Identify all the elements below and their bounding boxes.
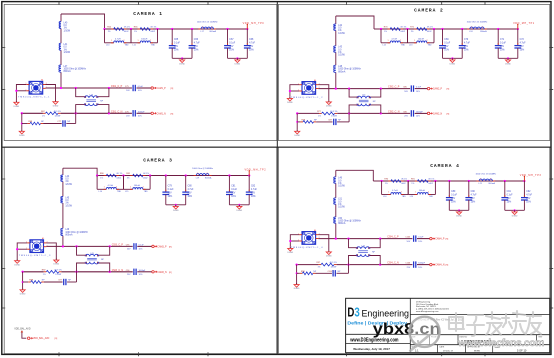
wire: CSI P line <box>318 88 410 90</box>
capacitor C85 series (P line) <box>410 85 412 91</box>
svg-text:C68: C68 <box>249 39 254 41</box>
svg-text:1%: 1% <box>134 31 137 33</box>
svg-text:1%: 1% <box>384 31 387 33</box>
svg-text:1/10W: 1/10W <box>338 33 345 35</box>
wire: cap group bottom rail <box>443 57 463 59</box>
svg-text:2: 2 <box>97 263 98 265</box>
node junction on rail <box>149 174 151 176</box>
svg-text:DGND: DGND <box>235 64 241 66</box>
svg-text:TBD: TBD <box>428 44 433 46</box>
svg-text:1: 1 <box>414 40 415 42</box>
svg-text:800mA: 800mA <box>64 70 72 73</box>
node junction on rail <box>407 180 409 182</box>
svg-text:50V: 50V <box>231 193 236 195</box>
svg-text:4.7uF: 4.7uF <box>464 43 470 45</box>
svg-text:1/10W: 1/10W <box>65 205 72 207</box>
wire: CSI N line <box>297 112 319 114</box>
svg-text:10%: 10% <box>251 196 256 198</box>
resistor R64 0K jumper (parallel pair 1) <box>111 28 114 30</box>
capacitor C107 NP <box>332 270 334 276</box>
ground (connector right) <box>55 259 57 261</box>
svg-text:1000pF: 1000pF <box>139 270 147 272</box>
svg-text:CSI2_C_N: CSI2_C_N <box>388 110 400 113</box>
svg-text:10%: 10% <box>520 49 525 51</box>
svg-text:10%: 10% <box>416 91 420 93</box>
svg-text:25V: 25V <box>188 193 193 195</box>
off-page connector CAM4_P <box>430 237 432 239</box>
svg-text:TMS04Q-KM75-C_1: TMS04Q-KM75-C_1 <box>18 97 50 99</box>
off-page connector CAM3_P <box>152 245 154 247</box>
center divider vertical <box>276 2 278 355</box>
wire: connector shield to ground (left) <box>290 85 299 97</box>
svg-text:0.1uF: 0.1uF <box>231 189 237 191</box>
svg-text:1%: 1% <box>64 49 67 51</box>
svg-text:1000 Ohm @ 100MHz: 1000 Ohm @ 100MHz <box>467 22 488 24</box>
svg-text:1%: 1% <box>338 30 341 32</box>
svg-text:A1: A1 <box>41 79 43 82</box>
wire: vertical supply chain <box>335 16 337 24</box>
svg-text:TBD: TBD <box>401 44 406 46</box>
svg-text:4.7uF: 4.7uF <box>520 43 526 45</box>
svg-text:0K 1%: 0K 1% <box>143 173 149 175</box>
svg-text:50V: 50V <box>229 46 234 48</box>
off-page connector CAM1_N <box>151 112 153 114</box>
inductor L12 4.7uH (parallel pair 1) <box>380 29 382 43</box>
resistor R98 NP <box>300 272 303 274</box>
svg-text:1000 Ohm @ 100MHz: 1000 Ohm @ 100MHz <box>64 69 87 71</box>
svg-text:C89: C89 <box>451 191 456 193</box>
svg-text:2: 2 <box>490 179 491 181</box>
node junction on rail <box>130 28 132 30</box>
ground (cap group) <box>236 57 238 59</box>
svg-text:1%: 1% <box>411 183 414 185</box>
svg-text:CSI4_C_N: CSI4_C_N <box>387 262 399 265</box>
resistor R65 0K jumper (parallel pair 2) <box>138 28 141 30</box>
svg-text:CAM4_N: CAM4_N <box>435 264 445 267</box>
wire: NP damping row <box>296 265 298 283</box>
svg-text:1: 1 <box>480 179 481 181</box>
ferrite bead L49 1000 Ohm @ 100MHz <box>61 228 63 235</box>
svg-text:25V: 25V <box>471 198 476 200</box>
svg-text:C71: C71 <box>500 39 505 41</box>
svg-text:CSI3_C_N: CSI3_C_N <box>112 269 124 272</box>
quadrant box bottom-right <box>278 147 549 354</box>
wire: connector right upper pin to ground <box>46 85 56 101</box>
svg-text:2: 2 <box>400 40 401 42</box>
wire: connector right upper pin to ground <box>318 85 328 101</box>
svg-text:10%: 10% <box>464 49 469 51</box>
svg-text:1000pF: 1000pF <box>138 111 146 113</box>
svg-text:DGND: DGND <box>179 64 185 66</box>
common-mode choke L75 (NP) <box>357 96 371 98</box>
wire: cap group bottom rail <box>505 209 525 211</box>
svg-text:0K 1%: 0K 1% <box>401 179 407 181</box>
resistor R91 0K jumper (parallel pair 2) <box>415 180 418 182</box>
connector pin stubs <box>299 84 302 86</box>
node junction on rail <box>380 180 382 182</box>
svg-text:1/10W: 1/10W <box>55 274 61 276</box>
wire: CSI P line <box>318 238 412 240</box>
svg-text:TMS04Q-KM75-C_2: TMS04Q-KM75-C_2 <box>291 97 323 99</box>
svg-text:CAM3_P: CAM3_P <box>157 245 167 248</box>
camera connector J11 TMS04Q-KM75-C <box>302 82 316 95</box>
ferrite bead L21 1000 Ohm @ 100MHz (rail) <box>477 180 480 182</box>
wire: NP damping row <box>296 113 298 129</box>
svg-text:www.elecfans.com: www.elecfans.com <box>457 338 544 349</box>
svg-text:1: 1 <box>202 27 203 29</box>
svg-text:C91: C91 <box>507 191 512 193</box>
resistor R68 NP <box>27 123 30 125</box>
svg-text:0.1uF: 0.1uF <box>507 195 513 197</box>
svg-text:10%: 10% <box>138 90 142 92</box>
common-mode choke L76 (NP) <box>85 254 99 256</box>
svg-text:3: 3 <box>369 97 370 99</box>
svg-text:CAM2_N: CAM2_N <box>433 112 443 115</box>
ground (cap group) <box>175 204 177 206</box>
junction: chain joins P line <box>335 87 337 89</box>
wire: filter rail <box>105 28 248 30</box>
svg-text:800mA: 800mA <box>338 70 346 73</box>
svg-text:TBD: TBD <box>402 196 407 198</box>
capacitor C66 4.7uF shunt <box>191 28 193 30</box>
capacitor C69 0.1uF shunt <box>441 28 443 30</box>
ground (cap group) <box>507 57 509 59</box>
wire: CSI N line <box>22 112 43 114</box>
resistor R67 49.9 1% (N line) <box>43 112 46 114</box>
ground (cap group) <box>451 57 453 59</box>
svg-text:C66: C66 <box>194 39 199 41</box>
svg-text:TBD: TBD <box>429 196 434 198</box>
svg-text:CAM1_N: CAM1_N <box>157 112 167 115</box>
svg-text:CAMERA 2: CAMERA 2 <box>414 8 444 14</box>
svg-text:1: 1 <box>471 27 472 29</box>
svg-text:Engineering: Engineering <box>362 307 410 318</box>
svg-text:1%: 1% <box>318 267 321 269</box>
ferrite bead L17 1000 Ohm @ 100MHz (rail) <box>198 28 201 30</box>
ground (cap group) <box>458 209 460 211</box>
ground (cap group) <box>514 209 516 211</box>
svg-text:1000 Ohm @ 100MHz: 1000 Ohm @ 100MHz <box>338 69 361 71</box>
svg-text:10%: 10% <box>418 267 422 269</box>
inductor L40 0.0 ohm <box>59 22 61 29</box>
svg-text:1000 Ohm @ 100MHz: 1000 Ohm @ 100MHz <box>192 168 213 170</box>
node junction on rail <box>434 180 436 182</box>
svg-text:DGND: DGND <box>20 293 26 295</box>
wire: cap group bottom rail <box>172 57 192 59</box>
ground (N network) <box>296 283 298 285</box>
svg-text:C70: C70 <box>464 39 469 41</box>
svg-text:CSI2_C_P: CSI2_C_P <box>388 86 400 89</box>
camera connector J12 TMS04Q-KM75-C <box>30 240 44 253</box>
svg-text:DGND: DGND <box>288 252 294 254</box>
svg-text:2: 2 <box>116 187 117 189</box>
wire: cap group bottom rail <box>449 209 469 211</box>
junction: chain joins P line <box>62 245 64 247</box>
svg-text:1%: 1% <box>43 274 46 276</box>
ground (connector right) <box>328 100 330 102</box>
capacitor C81 0.1uF shunt <box>228 174 230 176</box>
svg-text:0K 1%: 0K 1% <box>117 173 123 175</box>
svg-text:[R]: [R] <box>169 272 172 274</box>
wire: chain top to filter rail <box>63 168 97 175</box>
svg-text:CAMERA 1: CAMERA 1 <box>133 11 163 17</box>
capacitor C87 NP <box>333 119 335 125</box>
power net VDD_MH_TP3 <box>523 177 525 181</box>
svg-text:DGND: DGND <box>326 106 332 108</box>
svg-text:4: 4 <box>356 247 357 249</box>
svg-text:10%: 10% <box>194 49 199 51</box>
svg-text:0.1uF: 0.1uF <box>138 86 144 88</box>
capacitor C89 0.1uF shunt <box>448 180 450 182</box>
svg-text:DGND: DGND <box>294 288 300 290</box>
wire: vertical supply chain <box>62 168 64 175</box>
power net VDD_MH_TP2 <box>248 171 250 175</box>
ferrite bead L19 1000 Ohm @ 100MHz (rail) <box>194 175 197 177</box>
node junction on rail <box>103 28 105 30</box>
svg-text:4.7uF: 4.7uF <box>249 43 255 45</box>
ground (connector left) <box>15 101 17 103</box>
inductor L46 0.0 ohm <box>334 177 336 183</box>
capacitor C90 4.7uF shunt <box>468 180 470 182</box>
svg-text:10%: 10% <box>416 116 420 118</box>
svg-text:10%: 10% <box>139 274 143 276</box>
off-page connector VDD_BAL_AVD <box>28 337 30 339</box>
inductor L14 4.7uH (parallel pair 1) <box>96 176 98 190</box>
svg-text:TBD: TBD <box>117 191 122 193</box>
svg-text:1/10W: 1/10W <box>338 186 345 188</box>
svg-text:25V: 25V <box>249 46 254 48</box>
svg-text:1: 1 <box>130 187 131 189</box>
svg-text:VDD_MH_TP2: VDD_MH_TP2 <box>245 169 267 172</box>
svg-text:1%: 1% <box>385 183 388 185</box>
capacitor C80 4.7uF shunt <box>185 174 187 176</box>
svg-text:2: 2 <box>482 27 483 29</box>
ground (connector right) <box>55 100 57 102</box>
svg-text:WGW: WGW <box>474 350 481 352</box>
svg-text:TBD: TBD <box>125 44 130 46</box>
svg-text:4.7uF: 4.7uF <box>526 195 532 197</box>
svg-text:www.d3engineering.com: www.d3engineering.com <box>416 310 439 313</box>
resistor R87 49.9 1% (N line) <box>44 271 47 273</box>
node junction on rail <box>380 28 382 30</box>
wire: chain top to filter rail <box>336 16 374 29</box>
resistor R77 49.9 1% (N line) <box>319 112 322 114</box>
wire: connector right upper pin to ground <box>46 243 56 259</box>
svg-text:800mA: 800mA <box>480 30 487 33</box>
node junction on rail <box>156 28 158 30</box>
svg-text:0K 1%: 0K 1% <box>428 179 434 181</box>
svg-text:1000 Ohm @ 100MHz: 1000 Ohm @ 100MHz <box>197 22 218 24</box>
svg-text:CSI1_C_N: CSI1_C_N <box>111 110 123 113</box>
svg-text:10%: 10% <box>451 201 456 203</box>
svg-text:C80: C80 <box>188 186 193 188</box>
off-page connector CAM2_P <box>427 87 429 89</box>
svg-text:DGND: DGND <box>512 216 518 218</box>
svg-text:3: 3 <box>368 247 369 249</box>
svg-text:1/10W: 1/10W <box>55 115 61 117</box>
wire: connector shield to ground (left) <box>16 85 26 101</box>
svg-text:800mA: 800mA <box>489 182 496 185</box>
svg-text:800mA: 800mA <box>65 234 73 237</box>
svg-text:VDD_MH_TP1: VDD_MH_TP1 <box>513 22 535 25</box>
svg-text:C69: C69 <box>444 39 449 41</box>
svg-text:CAM2_P: CAM2_P <box>433 88 443 91</box>
svg-text:800mA: 800mA <box>210 30 217 33</box>
inductor L41 0.0 ohm <box>59 43 61 50</box>
svg-text:1000pF: 1000pF <box>416 111 424 113</box>
svg-text:800mA: 800mA <box>205 176 212 179</box>
svg-text:1%: 1% <box>42 115 45 117</box>
node junction on rail <box>433 28 435 30</box>
svg-text:2: 2 <box>97 105 98 107</box>
off-page connector CAM4_N <box>430 263 432 265</box>
wire: choke taps from P line <box>75 245 77 247</box>
title block frame <box>346 298 550 352</box>
capacitor C68 4.7uF shunt <box>246 28 248 30</box>
off-page connector CAM1_P <box>151 87 153 89</box>
svg-text:DGND: DGND <box>54 264 60 266</box>
svg-text:CAM3_N: CAM3_N <box>157 271 167 274</box>
svg-text:4.7uH: 4.7uH <box>108 185 114 187</box>
svg-text:2: 2 <box>369 105 370 107</box>
ground (connector left) <box>289 97 291 99</box>
svg-text:1/10W: 1/10W <box>331 116 337 118</box>
power net VDD_MH_TP0 <box>246 25 248 29</box>
svg-text:C81: C81 <box>231 186 236 188</box>
watermark magnifier <box>409 317 439 347</box>
svg-text:TBD: TBD <box>144 191 149 193</box>
svg-text:A1: A1 <box>42 237 44 240</box>
svg-text:0.1uF: 0.1uF <box>174 43 180 45</box>
svg-text:C79: C79 <box>168 186 173 188</box>
svg-text:[R]: [R] <box>446 265 449 267</box>
svg-text:0K 1%: 0K 1% <box>124 27 130 29</box>
ground (cap group) <box>238 204 240 206</box>
svg-text:1%: 1% <box>318 116 321 118</box>
svg-text:1/10W: 1/10W <box>65 184 72 186</box>
ferrite bead L48 1000 Ohm @ 100MHz <box>334 65 336 72</box>
svg-text:1000pF: 1000pF <box>418 263 426 265</box>
svg-text:1000 Ohm @ 100MHz: 1000 Ohm @ 100MHz <box>65 232 88 234</box>
svg-text:DGND: DGND <box>326 256 332 258</box>
wire: connector shield to ground (left) <box>290 235 299 247</box>
svg-text:1/10W: 1/10W <box>64 52 71 54</box>
svg-text:C90: C90 <box>471 191 476 193</box>
wire: choke taps from P line <box>348 87 350 89</box>
svg-text:VDD_BAL_AVD: VDD_BAL_AVD <box>14 328 31 331</box>
svg-text:25V: 25V <box>526 198 531 200</box>
svg-text:10%: 10% <box>526 201 531 203</box>
svg-text:10%: 10% <box>500 49 505 51</box>
svg-text:49.9 1%: 49.9 1% <box>54 111 62 113</box>
inductor L51 0.0 ohm <box>334 198 336 204</box>
inductor L11 100uH (parallel pair 2) <box>130 29 132 43</box>
wire: filter rail <box>97 175 249 177</box>
svg-text:1/10W: 1/10W <box>338 55 345 57</box>
svg-text:50V: 50V <box>500 46 505 48</box>
capacitor C67 0.1uF shunt <box>226 28 228 30</box>
svg-text:3: 3 <box>97 255 98 257</box>
svg-text:1: 1 <box>356 256 357 258</box>
wire: VDD_BAL_AVD stub <box>22 331 26 339</box>
svg-text:C67: C67 <box>229 39 234 41</box>
svg-text:1: 1 <box>388 40 389 42</box>
camera connector J10 TMS04Q-KM75-C <box>29 81 43 94</box>
svg-text:1%: 1% <box>411 31 414 33</box>
svg-text:1/10W: 1/10W <box>338 207 345 209</box>
wire: CSI N line <box>297 264 319 266</box>
inductor L15 100uH (parallel pair 2) <box>123 176 125 190</box>
svg-text:10%: 10% <box>231 196 236 198</box>
svg-text:10%: 10% <box>249 49 254 51</box>
svg-text:1%: 1% <box>65 203 68 205</box>
junction: chain joins P line <box>335 237 337 239</box>
svg-text:0.1uF: 0.1uF <box>229 43 235 45</box>
svg-text:DGND: DGND <box>287 102 293 104</box>
svg-text:50V: 50V <box>174 46 179 48</box>
svg-text:DGND: DGND <box>456 216 462 218</box>
svg-text:CAMERA 4: CAMERA 4 <box>430 163 460 169</box>
wire: NP damping row <box>22 272 24 288</box>
inductor L10 4.7uH (parallel pair 1) <box>104 29 106 43</box>
svg-text:4: 4 <box>356 97 357 99</box>
resistor R80 0K jumper (parallel pair 1) <box>104 175 107 177</box>
svg-text:0.1uF: 0.1uF <box>444 43 450 45</box>
svg-text:1000 Ohm @ 100MHz: 1000 Ohm @ 100MHz <box>338 221 361 223</box>
svg-text:1%: 1% <box>338 52 341 54</box>
svg-text:[R]: [R] <box>446 239 449 241</box>
wire: cap group bottom rail <box>229 204 249 206</box>
ground (connector left) <box>289 247 291 249</box>
wire: choke taps from N line <box>347 263 349 265</box>
svg-text:2: 2 <box>124 40 125 42</box>
svg-text:0.1uF: 0.1uF <box>168 189 174 191</box>
wire: cap group bottom rail <box>166 204 186 206</box>
wire: chain top to filter rail <box>61 14 105 29</box>
capacitor C105 series (P line) <box>413 235 415 241</box>
svg-text:TMS04Q-KM75-C_3: TMS04Q-KM75-C_3 <box>19 255 51 257</box>
capacitor C95 series (P line) <box>133 243 135 249</box>
ground (cap group) <box>181 57 183 59</box>
center divider horizontal <box>2 146 551 148</box>
svg-text:[R]: [R] <box>171 88 174 90</box>
wire: filter rail <box>382 180 525 182</box>
svg-text:25V: 25V <box>520 46 525 48</box>
wire: NP damping row <box>21 113 23 129</box>
svg-text:1:1: 1:1 <box>415 349 419 353</box>
svg-text:1%: 1% <box>127 178 130 180</box>
capacitor C86 series (N line) <box>410 110 412 116</box>
svg-text:DGND: DGND <box>173 210 179 212</box>
capacitor C96 series (N line) <box>133 269 135 275</box>
svg-text:4.7uF: 4.7uF <box>188 189 194 191</box>
svg-text:2: 2 <box>401 192 402 194</box>
svg-text:2: 2 <box>143 187 144 189</box>
svg-text:25V: 25V <box>251 193 256 195</box>
inductor L43 0.0 ohm <box>334 46 336 52</box>
quadrant box top-left <box>4 4 277 140</box>
inductor L20 100uH (parallel pair 2) <box>407 181 409 195</box>
svg-text:TBD: TBD <box>151 44 156 46</box>
capacitor C82 4.7uF shunt <box>248 174 250 176</box>
wire: choke taps from P line <box>347 237 349 239</box>
connector pin stubs <box>26 84 29 86</box>
svg-text:800mA: 800mA <box>338 222 346 225</box>
svg-text:VDD_MH_TP0: VDD_MH_TP0 <box>243 22 265 25</box>
svg-text:50V: 50V <box>451 198 456 200</box>
svg-text:CAMERA 3: CAMERA 3 <box>143 157 173 163</box>
svg-text:1: 1 <box>111 40 112 42</box>
